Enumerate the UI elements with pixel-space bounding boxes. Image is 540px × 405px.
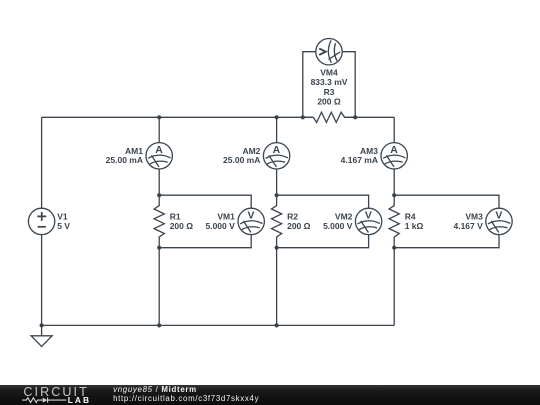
ammeter AM1: [146, 143, 172, 169]
svg-text:A: A: [273, 145, 281, 156]
ammeter AM2: [263, 143, 289, 169]
voltmeter VM1: [238, 208, 264, 234]
wire top rail right segment: [347, 116, 394, 118]
svg-text:VM4: VM4: [320, 68, 338, 78]
svg-text:A: A: [390, 145, 398, 156]
wire VM1 loop: [159, 195, 251, 248]
wire left rail (V1 branch): [41, 117, 43, 325]
node dot top rail AM1: [157, 115, 161, 119]
CircuitLab logo: [0, 385, 96, 405]
resistor R1: [154, 195, 164, 248]
svg-text:25.00 mA: 25.00 mA: [223, 155, 260, 165]
svg-text:V: V: [495, 210, 502, 221]
svg-text:5 V: 5 V: [57, 221, 70, 231]
node dot ground: [40, 323, 44, 327]
wire R1 lower branch: [158, 248, 160, 326]
wire VM4 loop right: [342, 52, 355, 118]
node dot R2 top: [275, 193, 279, 197]
wire R2 lower branch: [276, 248, 278, 326]
voltmeter VM2: [355, 208, 381, 234]
svg-text:200 Ω: 200 Ω: [317, 96, 341, 106]
wire R4 lower branch: [393, 248, 395, 326]
svg-text:1 kΩ: 1 kΩ: [405, 221, 424, 231]
wire AM3 branch: [393, 117, 395, 195]
voltage source V1: [28, 208, 54, 234]
svg-text:4.167 V: 4.167 V: [453, 221, 483, 231]
svg-text:200 Ω: 200 Ω: [287, 221, 311, 231]
svg-text:25.00 mA: 25.00 mA: [106, 155, 143, 165]
svg-text:5.000 V: 5.000 V: [205, 221, 235, 231]
node dot R1 bottom: [157, 246, 161, 250]
node dot R4 top: [392, 193, 396, 197]
svg-text:V: V: [365, 210, 372, 221]
svg-text:LAB: LAB: [68, 395, 91, 405]
voltmeter VM3: [486, 208, 512, 234]
wire AM1 branch: [158, 117, 160, 195]
node dot top rail AM2: [275, 115, 279, 119]
wire VM4 loop left: [303, 52, 316, 118]
ammeter AM3: [381, 143, 407, 169]
resistor R3: [303, 112, 355, 122]
svg-text:4.167 mA: 4.167 mA: [341, 155, 378, 165]
resistor R2: [272, 195, 282, 248]
footer bar: [0, 385, 540, 405]
ground: [31, 325, 52, 346]
meter letter V of VM4 rotated: [319, 49, 326, 55]
node dot R4 bottom: [392, 246, 396, 250]
svg-text:5.000 V: 5.000 V: [323, 221, 353, 231]
voltmeter VM4 (rotated): [316, 39, 342, 65]
resistor R4: [389, 195, 399, 248]
wire AM2 branch: [276, 117, 278, 195]
node dot R1 top: [157, 193, 161, 197]
node dot R2 bottom: [275, 246, 279, 250]
node dot bottom R1: [157, 323, 161, 327]
svg-text:200 Ω: 200 Ω: [170, 221, 194, 231]
svg-text:833.3 mV: 833.3 mV: [311, 77, 348, 87]
wire VM3 loop: [394, 195, 499, 248]
svg-text:R3: R3: [324, 87, 335, 97]
wire top rail left segment: [42, 116, 313, 118]
node dot bottom R2: [275, 323, 279, 327]
svg-text:A: A: [155, 145, 163, 156]
node dot R3 left: [301, 115, 305, 119]
svg-text:V: V: [248, 210, 255, 221]
node dot R3 right: [353, 115, 357, 119]
wire bottom rail: [42, 324, 395, 326]
wire VM2 loop: [277, 195, 369, 248]
